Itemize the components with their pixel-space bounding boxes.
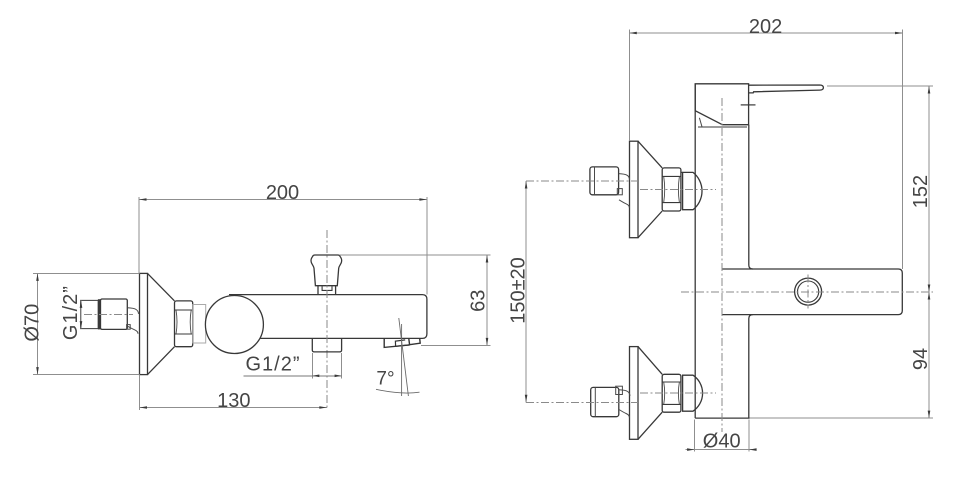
dimension 200: arrow left xyxy=(139,198,147,201)
svg-text:G1/2”: G1/2” xyxy=(245,353,300,375)
node: screw vertical centerline xyxy=(807,275,809,309)
dimension D70: arrow top xyxy=(36,273,39,281)
wire: escutcheon cone top edge xyxy=(148,273,175,301)
wire: bottom nut facet top xyxy=(662,381,681,383)
wire: cap skirt line xyxy=(698,126,747,128)
dimension D40: extension line right xyxy=(748,420,750,452)
dimension 202: extension line left xyxy=(628,30,630,142)
dimension 130: arrow left xyxy=(140,406,148,409)
wire: knob stem step xyxy=(322,286,332,290)
svg-text:G1/2”: G1/2” xyxy=(60,285,82,340)
svg-text:202: 202 xyxy=(749,16,782,38)
dimension G1/2 nipple: dimension line xyxy=(80,300,82,328)
dimension 152/94: extension line top from lever tip xyxy=(827,85,933,87)
svg-text:Ø70: Ø70 xyxy=(22,304,44,342)
node: bottom nipple centerline xyxy=(526,401,638,403)
node: bottom eccentric notch xyxy=(616,386,623,394)
svg-text:63: 63 xyxy=(468,290,490,312)
node: spout aerator tilted (left view) xyxy=(384,338,420,347)
dimension G1/2 port: arrow left xyxy=(312,375,319,378)
node: top eccentric notch xyxy=(617,189,622,195)
wire: break hook upper (left view) xyxy=(128,308,139,314)
wire: top nut facet bottom xyxy=(662,202,681,204)
dimension D70: extension line top xyxy=(33,272,140,274)
dimension 130: extension line left below plate xyxy=(139,375,141,410)
wire: top nipple inner line xyxy=(594,167,596,195)
dimension 63: arrow bottom xyxy=(486,338,489,346)
wire: wall nipple thread section (left view) xyxy=(81,300,99,328)
node: top hex nut (front view) xyxy=(662,168,681,211)
dimension 94: arrow bottom xyxy=(928,411,931,419)
dimension 200: arrow right xyxy=(419,198,427,201)
dimension 200: extension line right / body right edge extension xyxy=(426,197,428,295)
wire: cap indicator tick xyxy=(741,104,756,106)
dimension 63: arrow top xyxy=(486,255,489,263)
node: top nipple centerline xyxy=(526,180,638,182)
dimension 63: dimension line xyxy=(486,255,488,345)
dimension 63: extension line top from knob xyxy=(340,254,491,256)
wire: top neck between nut and boss xyxy=(681,171,683,173)
node: knob and port centerline xyxy=(326,230,328,409)
wire: top break hook upper xyxy=(619,174,630,180)
dimension D70: arrow bottom xyxy=(36,367,39,375)
node: top faucet axis centerline xyxy=(640,189,716,191)
dimension D40: dimension line with tails xyxy=(686,449,756,451)
dimension 152/94: extension line bottom from body xyxy=(750,417,934,419)
svg-text:7°: 7° xyxy=(376,369,394,390)
dimension 202: arrow left xyxy=(629,32,637,35)
wire: bottom break hook upper xyxy=(619,390,630,396)
node: top wall nipple (front view) xyxy=(590,167,619,195)
wire: top nut facet top xyxy=(662,175,681,177)
dimension 150+-20: arrow bottom xyxy=(525,395,528,403)
wire: nut facet line top xyxy=(175,309,193,311)
wire: bottom nut facet bottom xyxy=(662,403,681,405)
node: spout bracket plate (front view) xyxy=(722,269,902,315)
dimension D70: dimension line xyxy=(37,273,39,374)
node: body left edge (front view) xyxy=(694,84,696,418)
dimension 200: dimension line xyxy=(139,199,427,201)
dimension G1/2 port: leader and dimension line xyxy=(244,375,342,377)
node: bottom wall nipple (front view) xyxy=(591,387,619,416)
node: knob stem (left view) xyxy=(318,286,336,295)
dimension 202: dimension line xyxy=(629,32,902,34)
node: diverter knob (left view) xyxy=(311,255,342,286)
wire: aerator tilted axis line (7 deg) xyxy=(399,318,409,396)
node: handle cap (front view) xyxy=(695,84,748,125)
wire: union tail behind circle (light) xyxy=(193,305,206,344)
dimension 202: arrow right xyxy=(895,32,903,35)
dimension 150+-20: arrow top xyxy=(525,181,528,189)
node: bottom hex nut (front view) xyxy=(662,374,681,412)
wire: 7 degree arc xyxy=(376,389,420,393)
svg-text:150±20: 150±20 xyxy=(507,257,529,324)
dimension 200: extension line left (wall face) above plate xyxy=(138,197,140,273)
dimension D70: extension line bottom xyxy=(33,374,140,376)
wire: top cone upper edge xyxy=(638,141,662,168)
node: escutcheon plate (left view) xyxy=(140,273,148,374)
node: nipple body (left view) xyxy=(101,299,128,329)
dimension G1/2 nipple: arrow bottom xyxy=(80,321,83,329)
node: cartridge body circle (left view) xyxy=(205,296,263,354)
dimension 63: extension line bottom from aerator xyxy=(421,344,491,346)
wire: bottom cone upper edge xyxy=(638,347,662,375)
wire: break hook lower (left view) xyxy=(128,326,139,334)
dimension 152/94: dimension line xyxy=(928,86,930,418)
node: body right edge upper segment xyxy=(749,125,753,269)
wire: bottom nut chamfer arcs xyxy=(664,382,680,404)
svg-text:94: 94 xyxy=(910,348,932,370)
wire: nut chamfer arcs (left view) xyxy=(176,310,191,334)
wire: bottom break hook lower xyxy=(619,410,629,418)
dimension 130: dimension line xyxy=(140,407,327,409)
wire: aerator vertical reference line (7 deg) xyxy=(401,324,403,396)
svg-text:152: 152 xyxy=(910,175,932,208)
node: bottom connection boss half-round xyxy=(683,375,703,411)
svg-text:200: 200 xyxy=(266,182,299,204)
wire: body bottom edge xyxy=(695,417,749,419)
dimension D40: arrow right outside xyxy=(749,448,757,451)
wire: nut facet line bottom xyxy=(175,333,193,335)
node: screw inner circle xyxy=(798,281,819,302)
dimension 152: arrow top xyxy=(928,86,931,94)
wire: top break hook lower xyxy=(619,200,629,208)
wire: top nut chamfer arcs xyxy=(664,176,680,202)
node: hex nut (left view) xyxy=(175,301,193,347)
node: bottom escutcheon plate (front view) xyxy=(630,347,639,440)
wire: cap chamfer lower parallel line xyxy=(699,118,702,127)
node: nipple centerline (left view) xyxy=(84,313,133,315)
node: top escutcheon plate (front view) xyxy=(630,141,639,238)
wire: bottom nipple inner line xyxy=(594,387,596,416)
dimension D40: arrow left outside xyxy=(687,448,695,451)
node: spout horizontal centerline xyxy=(681,291,933,293)
node: handle lever (front view) xyxy=(749,85,824,93)
node: bottom faucet axis centerline xyxy=(640,392,716,394)
wire: aerator inner step xyxy=(395,340,409,346)
wire: bottom cone lower edge xyxy=(638,412,662,439)
dimension 94: arrow at centerline pointing up xyxy=(928,292,931,300)
wire: thread end bold line xyxy=(98,299,101,329)
dimension 202: extension line right xyxy=(902,30,904,269)
node: spout body (left view) xyxy=(229,295,427,339)
dimension 152: arrow at centerline pointing down xyxy=(928,285,931,293)
svg-text:130: 130 xyxy=(217,390,250,412)
wire: top cone lower edge xyxy=(638,211,662,238)
dimension D40: extension line left xyxy=(694,420,696,452)
svg-text:Ø40: Ø40 xyxy=(703,431,741,453)
dimension G1/2 port: arrow right xyxy=(335,375,342,378)
dimension G1/2 port: extension line right xyxy=(341,353,343,379)
node: body right edge lower segment xyxy=(749,315,753,419)
node: eccentric notch (left view) xyxy=(127,325,131,330)
dimension G1/2 port: extension line left xyxy=(311,353,313,379)
dimension 150+-20: dimension line xyxy=(525,181,527,402)
node: screw outer circle xyxy=(795,278,822,305)
dimension G1/2 nipple: arrow top xyxy=(80,300,83,308)
node: top connection boss half-round xyxy=(683,172,702,209)
dimension 130: arrow right xyxy=(319,406,327,409)
wire: escutcheon cone bottom edge xyxy=(148,347,175,375)
node: body vertical centerline xyxy=(721,98,723,432)
node: bottom shower port (left view) xyxy=(312,338,341,352)
